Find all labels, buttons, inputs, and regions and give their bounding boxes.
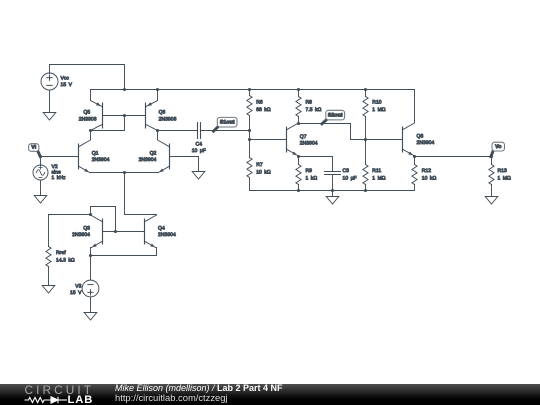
svg-text:2N3906: 2N3906 xyxy=(79,116,97,122)
svg-text:1 kΩ: 1 kΩ xyxy=(306,176,318,182)
svg-text:S1out: S1out xyxy=(220,119,235,125)
svg-text:10 kΩ: 10 kΩ xyxy=(422,176,437,182)
svg-text:Q8: Q8 xyxy=(417,134,424,140)
svg-text:V3: V3 xyxy=(75,283,81,289)
svg-text:Vcc: Vcc xyxy=(61,75,70,81)
svg-text:R10: R10 xyxy=(372,99,381,105)
svg-text:2N3904: 2N3904 xyxy=(158,232,176,238)
svg-text:C4: C4 xyxy=(196,141,203,147)
svg-text:1 kHz: 1 kHz xyxy=(52,175,66,181)
svg-text:R9: R9 xyxy=(306,168,313,174)
svg-text:10 µF: 10 µF xyxy=(192,148,206,154)
svg-text:R11: R11 xyxy=(372,168,381,174)
svg-text:2N3904: 2N3904 xyxy=(92,157,110,163)
svg-text:S2out: S2out xyxy=(328,112,343,118)
svg-text:C3: C3 xyxy=(343,168,350,174)
svg-text:Q4: Q4 xyxy=(158,225,165,231)
svg-text:2N3904: 2N3904 xyxy=(300,140,318,146)
svg-text:15 V: 15 V xyxy=(61,82,73,88)
svg-text:14.3 kΩ: 14.3 kΩ xyxy=(56,258,75,264)
svg-text:Q6: Q6 xyxy=(159,110,166,116)
svg-text:VI: VI xyxy=(31,145,37,151)
svg-text:2N3904: 2N3904 xyxy=(417,140,435,146)
svg-text:Q5: Q5 xyxy=(83,110,90,116)
svg-text:Q2: Q2 xyxy=(150,151,157,157)
svg-text:Q1: Q1 xyxy=(92,151,99,157)
svg-text:R6: R6 xyxy=(256,99,263,105)
svg-text:R13: R13 xyxy=(498,168,507,174)
svg-text:2N3904: 2N3904 xyxy=(139,157,157,163)
svg-text:10 kΩ: 10 kΩ xyxy=(256,170,271,176)
svg-text:2N3904: 2N3904 xyxy=(72,232,90,238)
svg-text:1 MΩ: 1 MΩ xyxy=(372,176,385,182)
svg-text:Rref: Rref xyxy=(56,250,66,256)
svg-text:88 kΩ: 88 kΩ xyxy=(256,107,271,113)
svg-text:15 V: 15 V xyxy=(70,290,82,296)
svg-text:R8: R8 xyxy=(306,99,313,105)
svg-text:1 MΩ: 1 MΩ xyxy=(498,176,511,182)
svg-text:Q3: Q3 xyxy=(83,225,90,231)
svg-text:Q7: Q7 xyxy=(300,134,307,140)
svg-text:R7: R7 xyxy=(256,162,263,168)
svg-text:1 MΩ: 1 MΩ xyxy=(372,107,385,113)
svg-text:10 µF: 10 µF xyxy=(343,176,357,182)
svg-text:R12: R12 xyxy=(422,168,431,174)
svg-text:Vo: Vo xyxy=(495,144,501,150)
svg-text:7.5 kΩ: 7.5 kΩ xyxy=(306,107,322,113)
svg-text:2N3906: 2N3906 xyxy=(159,116,177,122)
